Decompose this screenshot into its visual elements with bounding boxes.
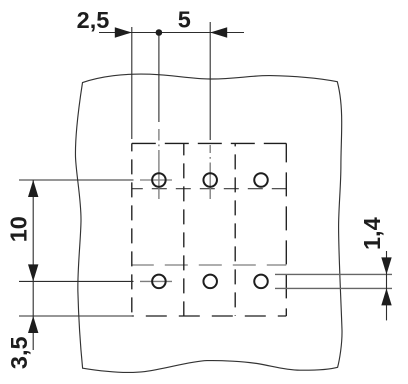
- arrow 3,5 up (below line): [28, 316, 38, 333]
- hole R1C2: [203, 173, 217, 187]
- housing hidden edge gray: row2 top: [132, 264, 286, 266]
- housing outline dashed: left edge: [131, 143, 133, 316]
- centerline hole R1C1 vertical gray dash-dot: [158, 129, 160, 199]
- dot terminator at hole col1: [156, 29, 163, 36]
- arrow 5 left-pointing: [210, 27, 227, 37]
- svg-text:1,4: 1,4: [359, 217, 385, 250]
- extension line housing bottom (left): [19, 315, 133, 317]
- housing outline dashed: row1 bottom edge: [132, 188, 286, 190]
- hole R2C3: [254, 275, 268, 289]
- arrow 1,4 up (below): [381, 288, 391, 305]
- svg-text:2,5: 2,5: [77, 7, 110, 33]
- centerline hole R1C1 horizontal gray dash-dot: [136, 179, 176, 181]
- top dimension line: [99, 32, 244, 34]
- svg-text:10: 10: [6, 216, 32, 242]
- svg-text:3,5: 3,5: [6, 336, 32, 369]
- svg-text:5: 5: [178, 7, 191, 33]
- arrow 1,4 down (above): [381, 257, 391, 274]
- hole R2C2: [203, 275, 217, 289]
- extension line for 2,5 (left, above housing): [131, 27, 133, 139]
- plate outline (broken-out PCB section): [75, 74, 342, 372]
- right dimension line 1,4: [386, 251, 388, 320]
- extension line row1 centerline (left): [19, 179, 134, 181]
- housing divider dashed: vertical 2: [234, 143, 236, 316]
- left dimension line 10 + 3,5: [32, 180, 34, 350]
- hole R1C3: [254, 173, 268, 187]
- housing outline dashed: bottom edge: [132, 315, 286, 317]
- centerline hole R1C2 vertical gray dash-dot: [209, 145, 211, 199]
- extension/centerline hole col1: dark upper part: [158, 33, 160, 122]
- housing outline dashed: top edge: [132, 142, 286, 144]
- hole R1C1: [152, 173, 166, 187]
- extension line row2 centerline (left): [19, 280, 134, 282]
- housing divider dashed: vertical 1: [183, 143, 185, 316]
- extension line 1,4 top (gray): [275, 273, 392, 275]
- extension line 1,4 bottom (gray): [275, 287, 392, 289]
- arrow 2,5 right-pointing: [115, 27, 132, 37]
- arrow 10 down: [28, 264, 38, 281]
- centerline hole R2C1 horizontal gray dash-dot: [136, 280, 173, 282]
- arrow 10 up: [28, 180, 38, 197]
- hole R2C1: [152, 275, 166, 289]
- extension/centerline hole col2: dark upper part: [209, 22, 211, 140]
- housing outline dashed: right edge: [285, 143, 287, 316]
